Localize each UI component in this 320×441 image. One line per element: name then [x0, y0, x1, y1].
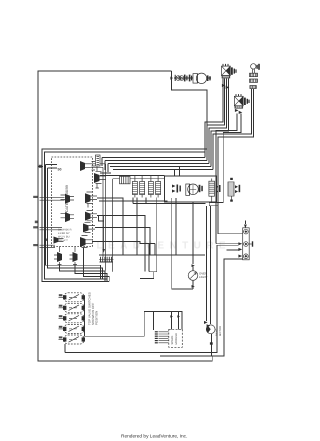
svg-text:OR L2 Y: OR L2 Y — [58, 239, 68, 242]
svg-text:POSITION: POSITION — [95, 311, 99, 325]
svg-text:SPARK: SPARK — [171, 335, 174, 344]
svg-text:MODULE: MODULE — [175, 333, 178, 345]
svg-text:50: 50 — [58, 168, 62, 172]
svg-text:MOTOR: MOTOR — [219, 326, 222, 336]
svg-text:UPDATED 10/08/99: UPDATED 10/08/99 — [65, 185, 69, 217]
svg-text:Rendered by LeadVenture, Inc.: Rendered by LeadVenture, Inc. — [121, 433, 187, 439]
svg-text:LIGHT: LIGHT — [199, 275, 208, 279]
